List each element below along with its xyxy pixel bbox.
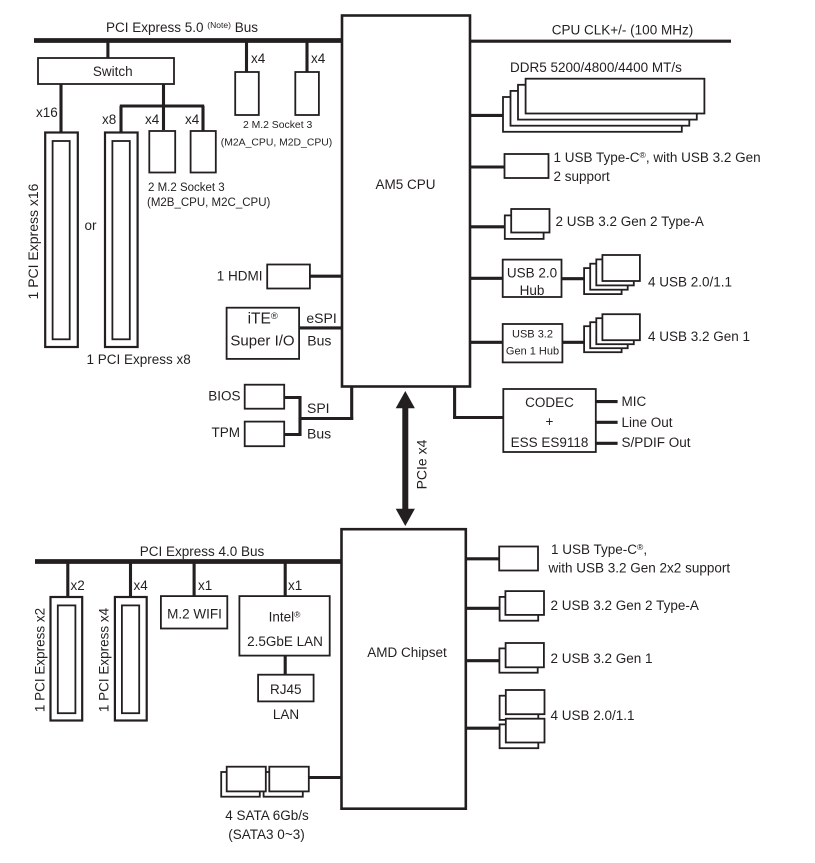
wire chipset to 2 USB 3.2 Gen 2 Type-A: [467, 607, 500, 610]
svg-text:SPI: SPI: [307, 400, 330, 416]
wire bus to M2A: [245, 42, 248, 72]
svg-text:LAN: LAN: [273, 707, 299, 722]
svg-text:USB 2.0: USB 2.0: [507, 266, 557, 281]
label x8: [102, 112, 116, 127]
label x1 (LAN): [288, 578, 302, 593]
svg-text:MIC: MIC: [622, 394, 647, 409]
svg-text:2 USB 3.2 Gen 2 Type-A: 2 USB 3.2 Gen 2 Type-A: [551, 598, 699, 613]
svg-text:x4: x4: [251, 51, 266, 66]
wire CPU to USB 3.2 Gen 1 Hub: [470, 341, 503, 344]
svg-text:x1: x1: [198, 578, 212, 593]
label x2: [71, 578, 85, 593]
label x16: [36, 105, 58, 120]
svg-text:x16: x16: [36, 105, 58, 120]
svg-text:Line Out: Line Out: [622, 415, 673, 430]
wire bus to x4 slot: [129, 563, 132, 597]
wire Switch to x8/x4 branch: [120, 84, 204, 132]
block iTE Super I/O: [227, 308, 300, 359]
svg-text:2 M.2 Socket 3: 2 M.2 Socket 3: [148, 182, 225, 194]
wire USB 2.0 Hub to ports: [562, 277, 585, 280]
label 1 HDMI: [217, 269, 263, 284]
svg-text:eSPI: eSPI: [306, 310, 336, 326]
svg-text:2 support: 2 support: [554, 169, 611, 184]
svg-text:Switch: Switch: [93, 64, 133, 79]
m.2 box M2B_CPU: [149, 131, 175, 173]
block RJ45: [258, 675, 314, 702]
wire CPU to CODEC: [453, 386, 503, 419]
label 1 PCI Express x16 (vertical): [25, 183, 41, 299]
wire bus to M.2 WIFI: [193, 563, 196, 596]
svg-text:PCIe x4: PCIe x4: [414, 439, 430, 489]
label PCI Express 5.0 Bus: [106, 16, 258, 35]
label 2 USB 3.2 Gen 1: [551, 651, 653, 666]
port stack 4 USB 2.0/1.1 (chipset): [500, 690, 545, 748]
wire Switch to x16 slot: [59, 84, 62, 132]
wire iTE to CPU (eSPI): [299, 326, 342, 329]
slot PCI Express x4: [115, 597, 147, 721]
wire CPU to DDR5: [470, 114, 504, 117]
label 4 USB 2.0/1.1 (CPU): [648, 275, 732, 290]
label 4 USB 3.2 Gen 1: [648, 329, 750, 344]
m.2 box M2C_CPU: [191, 131, 216, 173]
svg-text:AM5 CPU: AM5 CPU: [375, 177, 435, 192]
label x4 (M2B): [145, 112, 160, 127]
wire LAN to RJ45: [284, 656, 287, 675]
svg-text:1 PCI Express x8: 1 PCI Express x8: [87, 352, 191, 367]
svg-text:or: or: [85, 218, 98, 233]
label 1 PCI Express x2 (vertical): [33, 608, 48, 712]
port box HDMI: [267, 265, 310, 289]
port stack 4 SATA: [221, 767, 309, 797]
wire bus to Switch: [106, 42, 109, 58]
m.2 box M2A_CPU: [235, 72, 259, 115]
svg-text:(M2B_CPU, M2C_CPU): (M2B_CPU, M2C_CPU): [147, 197, 270, 209]
port stack 4 USB 2.0/1.1 (CPU): [584, 255, 640, 294]
wire bus to Intel LAN: [284, 563, 287, 596]
block USB 2.0 Hub: [503, 260, 562, 298]
wire chipset to 4 USB 2.0: [467, 727, 500, 730]
wire USB 3.2 Gen 1 Hub to ports: [562, 341, 584, 344]
svg-text:1 PCI Express x16: 1 PCI Express x16: [25, 183, 41, 299]
svg-text:Super I/O: Super I/O: [230, 333, 294, 350]
svg-text:RJ45: RJ45: [270, 682, 302, 697]
label 1 USB Type-C with USB 3.2 Gen 2x2 support: [548, 542, 731, 576]
wire CODEC to Line Out: [596, 421, 618, 424]
dimm stack DDR5: [503, 79, 704, 132]
label x1 (WIFI): [198, 578, 212, 593]
wire bus to x2 slot: [66, 563, 69, 597]
port stack 2 USB 3.2 Gen 1: [499, 643, 544, 673]
label LAN: [273, 707, 299, 722]
svg-text:M.2 WIFI: M.2 WIFI: [167, 607, 222, 622]
svg-text:2 M.2 Socket 3: 2 M.2 Socket 3: [243, 120, 313, 131]
svg-text:x4: x4: [311, 51, 326, 66]
svg-text:2.5GbE LAN: 2.5GbE LAN: [247, 634, 323, 649]
svg-text:+: +: [546, 414, 554, 429]
svg-text:CPU CLK+/- (100 MHz): CPU CLK+/- (100 MHz): [552, 23, 693, 38]
label x4 (M2D): [311, 51, 326, 66]
label 1 PCI Express x8: [87, 352, 191, 367]
port box USB Type-C (CPU): [505, 154, 549, 178]
block CODEC ESS ES9118: [503, 389, 596, 452]
svg-text:ESS ES9118: ESS ES9118: [511, 435, 589, 450]
wire CPU to USB Type-C: [470, 165, 505, 168]
label PCIe x4 (vertical): [414, 439, 430, 489]
arrow PCIe x4 (CPU to chipset): [396, 391, 415, 526]
wire bus to M2D: [305, 42, 308, 72]
label x4 (M2A): [251, 51, 266, 66]
label 2 USB 3.2 Gen 2 Type-A (chipset): [551, 598, 699, 613]
wire CODEC to MIC: [596, 400, 618, 403]
label 2 M.2 Socket 3 (M2B group): [147, 182, 270, 209]
svg-text:with USB 3.2 Gen 2x2 support: with USB 3.2 Gen 2x2 support: [548, 561, 731, 576]
bus PCIe 4.0 (bottom horizontal bus line): [35, 559, 342, 564]
svg-text:AMD Chipset: AMD Chipset: [367, 645, 447, 660]
svg-text:x4: x4: [185, 112, 200, 127]
svg-text:x1: x1: [288, 578, 302, 593]
svg-text:Hub: Hub: [520, 283, 545, 298]
wire HDMI to CPU: [310, 275, 342, 278]
wire chipset to 2 USB 3.2 Gen 1: [467, 659, 500, 662]
port stack 2 USB 3.2 Gen 2 Type-A: [505, 209, 550, 239]
svg-text:DDR5 5200/4800/4400 MT/s: DDR5 5200/4800/4400 MT/s: [510, 60, 682, 75]
label eSPI Bus: [306, 310, 336, 348]
label PCI Express 4.0 Bus: [140, 544, 265, 559]
block USB 3.2 Gen 1 Hub: [503, 324, 563, 362]
wire SPI bus bracket: [284, 386, 353, 436]
svg-text:BIOS: BIOS: [208, 389, 240, 404]
label CPU CLK: [552, 23, 693, 38]
block AM5 CPU: [342, 16, 470, 387]
m.2 box M2D_CPU: [295, 72, 319, 115]
svg-text:x4: x4: [145, 112, 160, 127]
wire chipset to USB Type-C (chipset): [467, 557, 500, 560]
port stack 4 USB 3.2 Gen 1: [584, 314, 640, 352]
block M.2 WIFI: [161, 596, 227, 628]
label 2 M.2 Socket 3 (M2A group): [221, 120, 332, 149]
svg-text:CODEC: CODEC: [525, 395, 574, 410]
label SPI Bus: [307, 400, 331, 441]
svg-text:x2: x2: [71, 578, 85, 593]
slot PCI Express x16: [45, 133, 78, 348]
svg-text:1 PCI Express x2: 1 PCI Express x2: [33, 608, 48, 712]
svg-text:PCI Express 4.0 Bus: PCI Express 4.0 Bus: [140, 544, 265, 559]
label MIC: [622, 394, 647, 409]
label 4 USB 2.0/1.1 (chipset): [551, 708, 635, 723]
wire SATA to chipset: [309, 776, 342, 779]
svg-text:S/PDIF Out: S/PDIF Out: [622, 435, 691, 450]
port box USB Type-C (chipset): [499, 547, 538, 571]
bus PCIe 5.0 (top horizontal bus line): [34, 38, 343, 43]
svg-text:2 USB 3.2 Gen 2 Type-A: 2 USB 3.2 Gen 2 Type-A: [556, 214, 704, 229]
svg-text:4 SATA 6Gb/s: 4 SATA 6Gb/s: [225, 808, 309, 823]
svg-text:4 USB 3.2 Gen 1: 4 USB 3.2 Gen 1: [648, 329, 750, 344]
block TPM: [212, 422, 285, 447]
label S/PDIF Out: [622, 435, 691, 450]
label Line Out: [622, 415, 673, 430]
svg-text:1 USB Type-C®, with USB 3.2 Ge: 1 USB Type-C®, with USB 3.2 Gen: [554, 150, 761, 165]
svg-text:TPM: TPM: [212, 425, 241, 440]
slot PCI Express x2: [51, 597, 83, 721]
svg-text:Bus: Bus: [307, 332, 331, 348]
label 1 PCI Express x4 (vertical): [97, 607, 112, 712]
label or: [85, 218, 98, 233]
label DDR5: [510, 60, 682, 75]
svg-text:USB 3.2: USB 3.2: [512, 329, 553, 341]
block BIOS: [208, 385, 284, 409]
slot PCI Express x8: [105, 133, 138, 348]
svg-text:Gen 1 Hub: Gen 1 Hub: [506, 346, 559, 358]
svg-text:1 HDMI: 1 HDMI: [217, 269, 263, 284]
label x4 (M2C): [185, 112, 200, 127]
wire CPU to USB 2.0 Hub: [470, 277, 503, 280]
svg-text:Bus: Bus: [307, 425, 331, 441]
port stack 2 USB 3.2 Gen 2 Type-A (chipset): [500, 591, 544, 621]
svg-text:x4: x4: [134, 578, 149, 593]
svg-text:2 USB 3.2 Gen 1: 2 USB 3.2 Gen 1: [551, 651, 653, 666]
block AMD Chipset: [342, 529, 466, 809]
label 2 USB 3.2 Gen 2 Type-A (CPU): [556, 214, 704, 229]
svg-text:(SATA3 0~3): (SATA3 0~3): [228, 827, 304, 842]
label x4 (bottom): [134, 578, 149, 593]
label 1 USB Type-C with USB 3.2 Gen 2 support: [554, 150, 761, 184]
wire CPU CLK line: [470, 40, 731, 43]
svg-text:(M2A_CPU, M2D_CPU): (M2A_CPU, M2D_CPU): [221, 138, 332, 149]
svg-text:1 USB Type-C®,: 1 USB Type-C®,: [551, 542, 647, 557]
wire CPU to USB 3.2 Gen 2 Type-A: [470, 225, 506, 228]
svg-text:4 USB 2.0/1.1: 4 USB 2.0/1.1: [648, 275, 732, 290]
svg-text:4 USB 2.0/1.1: 4 USB 2.0/1.1: [551, 708, 635, 723]
svg-text:x8: x8: [102, 112, 116, 127]
block Switch: [38, 58, 174, 84]
wire CODEC to S/PDIF Out: [596, 442, 618, 445]
block Intel 2.5GbE LAN: [239, 596, 329, 656]
svg-text:1 PCI Express x4: 1 PCI Express x4: [97, 607, 112, 712]
label 4 SATA 6Gb/s: [225, 808, 309, 842]
